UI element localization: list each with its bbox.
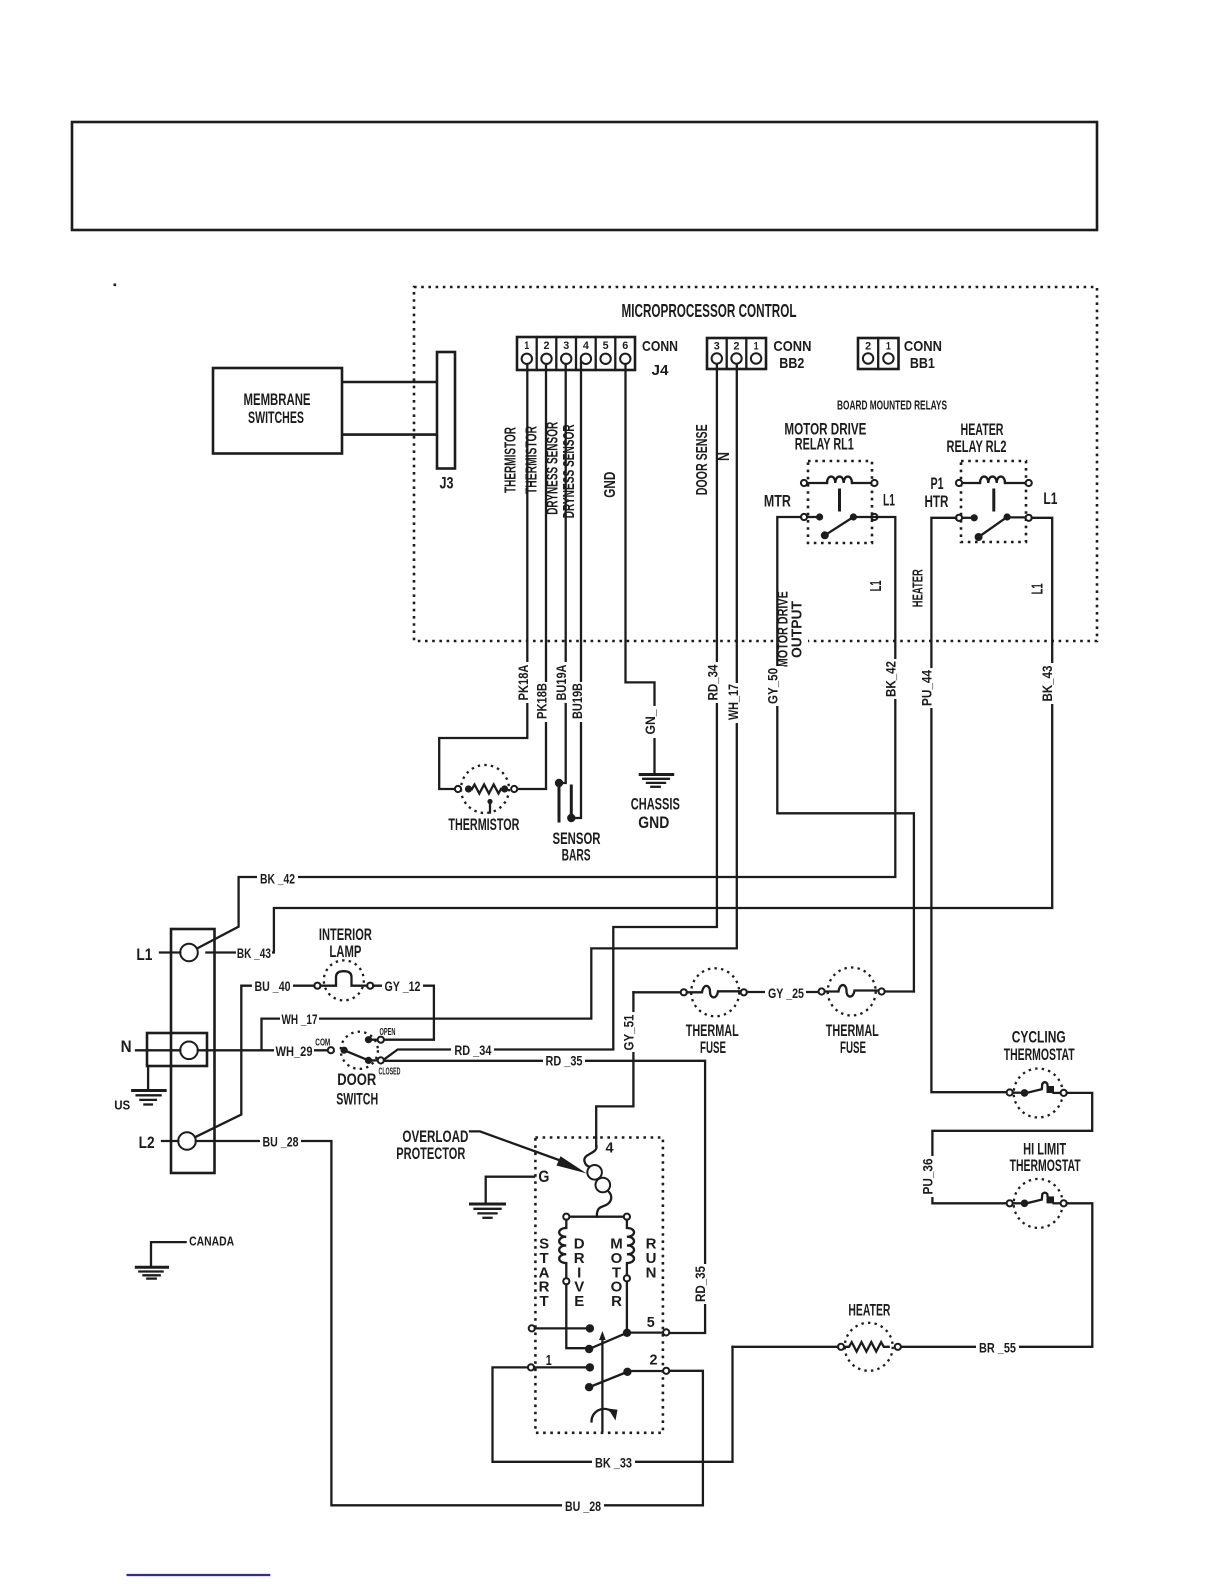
svg-text:3: 3 [563, 340, 569, 352]
sensor bars [553, 779, 601, 865]
svg-text:J3: J3 [440, 473, 454, 492]
svg-text:GY_50: GY_50 [765, 668, 780, 704]
decorative blue rule [127, 1574, 271, 1576]
relay RL1 armature bar [838, 490, 841, 510]
thermal fuse 2 [819, 968, 885, 1057]
svg-text:L2: L2 [139, 1133, 155, 1152]
relay RL1 (motor drive) [764, 420, 895, 543]
svg-text:WH _17: WH _17 [282, 1011, 318, 1027]
chassis ground symbol [631, 775, 680, 832]
wire J4 pin6 to chassis gnd [626, 364, 655, 773]
terminal N [180, 1042, 198, 1060]
terminal L2 [178, 1132, 196, 1150]
wire J4 pin3 to sensor bar [559, 364, 566, 783]
microprocessor control dashed box [414, 287, 1097, 641]
svg-text:MEMBRANE: MEMBRANE [244, 390, 311, 409]
svg-text:4: 4 [583, 340, 590, 352]
wire BB2 pin3 (door sense / RD_34) [384, 364, 717, 1060]
svg-text:1: 1 [886, 341, 891, 353]
label GN_ [648, 706, 662, 738]
svg-text:P1: P1 [931, 474, 944, 493]
label WH_17 [730, 683, 744, 723]
svg-text:L1: L1 [1030, 583, 1047, 594]
svg-text:PU_36: PU_36 [920, 1158, 935, 1194]
svg-text:N: N [121, 1037, 132, 1056]
svg-text:OUTPUT: OUTPUT [788, 601, 805, 658]
label PU_44 [924, 668, 938, 708]
svg-text:2: 2 [650, 1351, 658, 1368]
svg-text:THERMISTOR: THERMISTOR [503, 427, 520, 493]
label RD_35 (vertical) [698, 1264, 713, 1304]
svg-text:PROTECTOR: PROTECTOR [396, 1144, 465, 1163]
svg-text:BB2: BB2 [779, 355, 804, 372]
label RD _35 [543, 1052, 585, 1069]
label BK _43 [236, 944, 272, 961]
wire L1 stub [160, 951, 180, 953]
svg-text:BK_42: BK_42 [883, 661, 898, 697]
wire RL2 P1 HTR (PU_44) [931, 518, 1006, 1092]
motor windings top rail [569, 1216, 623, 1218]
overload protector curve + discs [584, 1147, 596, 1167]
svg-text:1: 1 [754, 341, 759, 353]
svg-text:RD_34: RD_34 [705, 664, 720, 700]
door switch [315, 1027, 400, 1108]
wire BB2 pin2 (N / WH_17) [262, 364, 737, 1050]
wire BK_42 horizontal label gap [257, 869, 298, 888]
svg-text:L1: L1 [868, 580, 885, 591]
svg-text:L1: L1 [883, 491, 895, 510]
svg-text:GND: GND [638, 813, 669, 832]
heater [838, 1300, 901, 1371]
svg-text:T: T [540, 1293, 549, 1310]
motor switch contact 1 row [528, 1351, 669, 1391]
wire L2 stub [162, 1140, 178, 1142]
svg-text:PU_44: PU_44 [919, 670, 934, 706]
svg-text:THERMOSTAT: THERMOSTAT [1004, 1045, 1075, 1064]
hi limit thermostat [1007, 1139, 1081, 1228]
cycling thermostat [1004, 1028, 1075, 1118]
svg-text:SWITCH: SWITCH [336, 1090, 378, 1109]
svg-text:DRYNESS SENSOR: DRYNESS SENSOR [561, 424, 578, 518]
svg-text:CYCLING: CYCLING [1012, 1028, 1066, 1047]
svg-text:BK _33: BK _33 [595, 1454, 632, 1470]
svg-text:US: US [114, 1097, 130, 1112]
svg-text:5: 5 [647, 1314, 655, 1331]
svg-text:SWITCHES: SWITCHES [248, 408, 304, 427]
wire fuse2 to GY_50 [885, 990, 914, 992]
svg-text:J4: J4 [652, 362, 670, 379]
run winding (coil) [627, 1220, 634, 1276]
svg-text:FUSE: FUSE [840, 1038, 866, 1057]
relay RL2 coil [962, 482, 980, 484]
svg-text:OPEN: OPEN [380, 1027, 396, 1038]
winding letters START [539, 1236, 657, 1311]
label BK_42 (vertical) [888, 659, 902, 699]
label MOTOR DRIVE OUTPUT [780, 589, 808, 669]
svg-text:RELAY RL2: RELAY RL2 [947, 437, 1007, 456]
svg-text:G: G [538, 1167, 549, 1186]
svg-text:LAMP: LAMP [329, 942, 361, 961]
svg-text:2: 2 [734, 341, 740, 353]
label BR _55 [976, 1339, 1019, 1356]
svg-text:CANADA: CANADA [189, 1234, 234, 1249]
svg-text:CLOSED: CLOSED [379, 1067, 401, 1078]
wire N to door switch (WH_29) [198, 1049, 328, 1051]
relay RL2 armature bar [992, 490, 995, 510]
thermistor [448, 765, 519, 834]
label RD_34 [710, 662, 724, 703]
svg-text:6: 6 [622, 340, 628, 352]
svg-text:HTR: HTR [925, 492, 949, 511]
power terminal strip [121, 929, 215, 1173]
wire heater left to BK_33 junction [733, 1346, 839, 1348]
svg-text:BK _43: BK _43 [237, 945, 271, 961]
svg-text:GND: GND [602, 472, 619, 498]
svg-text:MICROPROCESSOR CONTROL: MICROPROCESSOR CONTROL [622, 301, 797, 321]
svg-text:RELAY RL1: RELAY RL1 [795, 435, 854, 454]
svg-text:GY _25: GY _25 [768, 985, 804, 1001]
svg-text:N: N [646, 1264, 657, 1281]
label BK_43 (vertical) [1045, 663, 1059, 704]
rotated wire-name labels below control box [516, 659, 1059, 738]
label GY_50 [770, 666, 784, 706]
wire BK_33 (contact1 to heater) [493, 1347, 733, 1462]
motor switch contact 5 row [529, 1314, 670, 1353]
svg-text:CHASSIS: CHASSIS [631, 795, 680, 814]
blade B [585, 1383, 593, 1391]
interior lamp [314, 925, 373, 1000]
wire membrane to J3 (lower) [342, 433, 437, 436]
relay RL2 switch [962, 517, 974, 519]
svg-text:FUSE: FUSE [700, 1038, 726, 1057]
svg-text:THERMOSTAT: THERMOSTAT [1010, 1156, 1081, 1175]
label BU19B [574, 682, 588, 722]
label WH_29 [274, 1043, 314, 1060]
blade A [585, 1345, 593, 1353]
relay RL1 switch [807, 516, 820, 518]
label PK18B [539, 682, 553, 722]
relay RL2 (heater) [925, 420, 1058, 542]
svg-text:DRYNESS SENSOR: DRYNESS SENSOR [545, 422, 562, 515]
wire J4 pin2 to thermistor right [517, 364, 546, 789]
wire RD_35 from door switch to motor contact 5 [384, 1061, 705, 1333]
label PK18A [520, 662, 534, 703]
G ground [471, 1167, 550, 1218]
svg-text:THERMISTOR: THERMISTOR [448, 815, 519, 834]
motor dotted box [535, 1138, 663, 1433]
connector BB1 [858, 338, 899, 369]
shaft rotation arrow [591, 1409, 611, 1422]
svg-text:RD_35: RD_35 [693, 1266, 708, 1302]
svg-text:CONN: CONN [773, 338, 811, 355]
svg-text:CONN: CONN [904, 338, 942, 355]
svg-text:BR _55: BR _55 [979, 1339, 1016, 1355]
wire RL1 L1 (BK_42) [198, 517, 896, 948]
wire GY_12 lamp to door switch open contact [373, 986, 434, 1040]
wire J4 pin4 to sensor bar [571, 362, 581, 818]
wire RL1 MTR output (GY_50) [777, 517, 914, 992]
centrifugal switch shaft [601, 1339, 603, 1431]
svg-text:L1: L1 [1043, 489, 1057, 508]
label BU _28 (bottom) [562, 1497, 604, 1514]
wire RL2 L1 (BK_43) [206, 518, 1052, 953]
wire J4 pin1 to thermistor (PK18A/PK18B net) [439, 364, 527, 789]
svg-text:N: N [716, 452, 733, 461]
membrane switches block [213, 368, 342, 454]
label BU _40 [252, 978, 293, 995]
svg-text:BU _28: BU _28 [565, 1498, 601, 1514]
label BK _33 [592, 1454, 635, 1471]
svg-text:RD _34: RD _34 [454, 1042, 491, 1058]
svg-text:DOOR: DOOR [337, 1070, 376, 1089]
wire GY_51 thermal fuse feed [596, 992, 633, 1146]
relay RL1 coil [807, 482, 827, 484]
CANADA ground [136, 1234, 234, 1279]
svg-text:BU19B: BU19B [570, 683, 585, 719]
svg-text:HEATER: HEATER [910, 569, 927, 607]
overload pointer arrow [470, 1131, 563, 1161]
svg-text:PK18A: PK18A [516, 664, 531, 700]
label RD _34 [451, 1042, 494, 1059]
start winding (coil) [559, 1220, 566, 1278]
svg-text:E: E [574, 1293, 584, 1310]
svg-text:BU _40: BU _40 [255, 978, 291, 994]
svg-text:BU19A: BU19A [554, 664, 569, 700]
label BU19A [559, 662, 573, 703]
wire BU_28 (L2 to contact2) [196, 1141, 703, 1505]
svg-text:GY_51: GY_51 [621, 1014, 636, 1050]
svg-text:WH_29: WH_29 [276, 1043, 313, 1059]
wire N stub [136, 1049, 180, 1051]
US ground [114, 1066, 165, 1112]
svg-text:RD _35: RD _35 [546, 1053, 583, 1069]
label GY_51 [626, 1012, 641, 1052]
svg-text:BARS: BARS [562, 845, 591, 864]
svg-text:HEATER: HEATER [848, 1300, 890, 1319]
wire cycling to hi-limit (PU_36) [932, 1093, 1092, 1203]
wire BU_40 from L2 to lamp [196, 986, 314, 1137]
wire membrane to J3 (upper) [342, 381, 437, 384]
terminal L1 [180, 944, 198, 962]
title block (empty) [72, 122, 1097, 230]
svg-text:COM: COM [315, 1037, 330, 1048]
svg-text:WH_17: WH_17 [726, 684, 741, 720]
svg-text:BK _42: BK _42 [260, 871, 295, 887]
svg-text:MTR: MTR [764, 492, 791, 511]
thermal fuse 1 [633, 968, 747, 1057]
svg-text:BK_43: BK_43 [1040, 665, 1055, 701]
svg-text:L1: L1 [136, 945, 152, 964]
svg-text:GY _12: GY _12 [385, 978, 421, 994]
svg-text:BB1: BB1 [910, 355, 935, 372]
svg-text:R: R [611, 1293, 622, 1310]
wire between fuses (GY_25) [747, 991, 819, 993]
svg-text:3: 3 [714, 341, 720, 353]
svg-text:CONN: CONN [642, 338, 678, 355]
label WH _17 [280, 1011, 319, 1028]
svg-text:4: 4 [606, 1139, 615, 1156]
pin circles J4 [522, 354, 532, 364]
label BU _28 (left) [260, 1133, 301, 1150]
label PU_36 [925, 1156, 940, 1197]
svg-text:THERMISTOR: THERMISTOR [524, 426, 541, 494]
svg-text:2: 2 [865, 341, 871, 353]
connector BB2 [707, 338, 766, 369]
svg-text:1: 1 [524, 340, 529, 352]
svg-text:GN_: GN_ [643, 709, 658, 734]
wire hi-limit to heater (BR_55) [901, 1203, 1092, 1347]
svg-text:5: 5 [603, 340, 609, 352]
connector J4 [517, 337, 635, 370]
svg-text:DOOR SENSE: DOOR SENSE [694, 424, 711, 495]
svg-text:2: 2 [544, 340, 550, 352]
label GY _12 [382, 978, 423, 995]
svg-text:BOARD MOUNTED RELAYS: BOARD MOUNTED RELAYS [837, 398, 947, 412]
svg-text:BU _28: BU _28 [263, 1134, 299, 1150]
stray dot mark [114, 284, 117, 287]
rotated net labels inside control box [503, 422, 1047, 669]
svg-text:PK18B: PK18B [535, 683, 550, 719]
connector J3 bar [437, 352, 455, 469]
